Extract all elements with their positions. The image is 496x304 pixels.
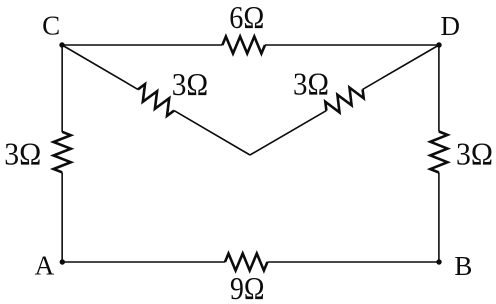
node A junction dot: [60, 259, 65, 264]
resistor 3ohm (right side): [430, 132, 447, 173]
wire C to left diagonal resistor: [62, 45, 138, 89]
svg-text:3Ω: 3Ω: [293, 66, 329, 102]
node B junction dot: [436, 259, 441, 264]
svg-text:6Ω: 6Ω: [229, 0, 264, 35]
resistor 9ohm (bottom): [225, 254, 267, 271]
svg-text:A: A: [35, 251, 55, 281]
wire node V to right diagonal resistor: [250, 111, 326, 155]
wire C to left 3ohm resistor (left top segment): [61, 45, 63, 132]
resistor 3ohm (left diagonal): [138, 84, 174, 116]
svg-text:B: B: [454, 251, 472, 281]
svg-text:D: D: [440, 11, 460, 41]
node C junction dot: [59, 42, 64, 47]
wire C to 6ohm resistor (top left segment): [62, 44, 222, 46]
svg-text:9Ω: 9Ω: [230, 270, 265, 304]
svg-text:3Ω: 3Ω: [456, 136, 493, 172]
svg-text:3Ω: 3Ω: [4, 136, 41, 172]
wire left 3ohm resistor to A (left bottom segment): [61, 172, 63, 262]
node D junction dot: [436, 42, 441, 47]
wire 6ohm resistor to D (top right segment): [265, 44, 439, 46]
svg-text:3Ω: 3Ω: [172, 66, 208, 102]
wire left diagonal resistor to node V: [174, 111, 250, 155]
wire D to right 3ohm resistor (right top segment): [438, 45, 440, 132]
svg-text:C: C: [42, 11, 60, 41]
resistor 3ohm (left side): [54, 132, 71, 173]
wire right diagonal resistor to D: [363, 45, 439, 89]
wire right 3ohm resistor to B (right bottom segment): [438, 173, 440, 263]
wire A to 9ohm resistor (bottom left segment): [62, 261, 225, 263]
resistor 3ohm (right diagonal): [325, 88, 363, 113]
wire 9ohm resistor to B (bottom right segment): [267, 261, 439, 263]
resistor 6ohm (top): [222, 37, 265, 54]
